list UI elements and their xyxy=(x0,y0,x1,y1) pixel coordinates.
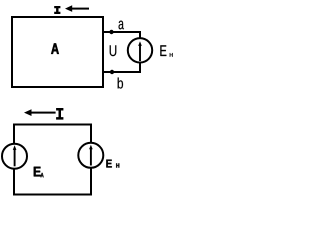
node a label xyxy=(119,21,124,30)
current label I (top) xyxy=(54,6,60,14)
current arrow (bottom circuit) xyxy=(24,109,56,116)
top wire (bottom circuit) xyxy=(13,124,92,126)
right wire upper segment xyxy=(90,124,92,143)
source E_H (top circuit) xyxy=(128,38,152,62)
node b label xyxy=(118,78,123,89)
current arrow (top) xyxy=(65,5,89,12)
label E_H (bottom) xyxy=(106,160,119,168)
junction dot b xyxy=(110,70,114,74)
label E_H (top) xyxy=(160,45,172,56)
label E_e xyxy=(34,167,44,178)
source E_H (bottom right) xyxy=(78,143,103,168)
bottom wire (bottom circuit) xyxy=(13,194,92,196)
right wire lower segment xyxy=(90,168,92,196)
wire from node a down to source xyxy=(139,31,141,39)
box A (active two-terminal network) xyxy=(12,17,103,87)
source E_e (equivalent source, bottom left) xyxy=(2,144,27,169)
junction dot a xyxy=(109,30,113,34)
wire node b xyxy=(103,71,141,73)
wire node a xyxy=(103,31,141,33)
voltage label U xyxy=(110,45,117,56)
left wire upper segment xyxy=(13,124,15,144)
left wire lower segment xyxy=(13,169,15,196)
label A xyxy=(51,43,59,53)
wire from source down to node b xyxy=(139,63,141,74)
current label I (bottom) xyxy=(56,108,63,120)
